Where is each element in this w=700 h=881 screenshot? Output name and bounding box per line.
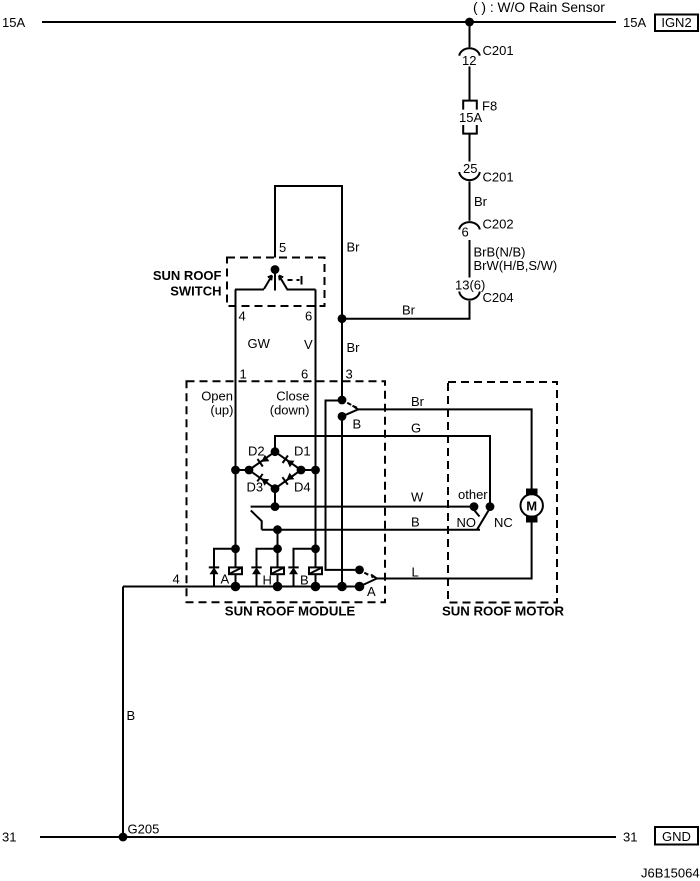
wire B line [262,529,480,531]
relay contact B: common dot from pin3 [338,396,347,405]
svg-text:31: 31 [2,830,16,845]
svg-text:D4: D4 [294,480,311,495]
wire trunk segment 5 [469,240,471,278]
wire G from bridge top to motor NC [275,436,490,507]
motor M [526,489,538,496]
diode of pair H [251,566,261,568]
bridge right stub [301,469,316,471]
wire bridge bottom to W line [274,489,276,507]
bridge node dots [271,447,280,456]
svg-text:5: 5 [279,240,286,255]
wire trunk segment 4 Br [469,181,471,220]
relay contact B dashed throw [347,403,357,408]
svg-text:SUN ROOF: SUN ROOF [153,268,222,283]
svg-text:L: L [412,565,419,580]
wire middle vertical to coil H [277,530,279,568]
ground junction G205 [119,833,128,842]
svg-text:C204: C204 [483,290,514,305]
relay contact B: NC dot [338,412,347,421]
wire W line [251,506,474,508]
wire trunk segment 3 [469,134,471,162]
wire L to motor [377,523,532,579]
svg-text:SUN ROOF MOTOR: SUN ROOF MOTOR [442,604,565,619]
relay pair H: top branch [257,549,278,568]
svg-text:3: 3 [346,367,353,382]
svg-text:12: 12 [462,53,476,68]
diode D3 [261,479,269,486]
svg-text:other: other [458,487,488,502]
wire switch feed: top bar and verticals [275,186,342,319]
diode of pair A [209,566,219,568]
relay pair B: top branch [294,549,316,568]
svg-text:G205: G205 [128,822,160,837]
wire pin3 down to ground bus [341,416,343,586]
relay contact A upper dot [355,566,364,575]
svg-text:V: V [304,337,313,352]
svg-text:4: 4 [239,309,246,324]
svg-text:(down): (down) [270,403,310,418]
svg-text:B: B [127,708,136,723]
svg-text:SUN ROOF MODULE: SUN ROOF MODULE [225,604,356,619]
switch left throw blade [264,276,272,290]
wire Br trunk to module pin 3 [341,319,343,400]
limit switch NO stub [475,511,480,517]
wire B-contact return (left jog, down, to A-contact upper) [326,401,360,570]
wire trunk segment 2 [469,67,471,101]
switch right contact rail [287,289,316,291]
svg-text:13(6): 13(6) [455,277,485,292]
svg-text:( ) : W/O Rain Sensor: ( ) : W/O Rain Sensor [473,0,605,15]
diode D1 [287,460,295,467]
junction dot on Br trunk [338,314,347,323]
svg-text:15A: 15A [459,110,482,125]
switch right throw blade [279,276,287,290]
coil A [235,567,237,586]
svg-text:SWITCH: SWITCH [170,284,221,299]
svg-text:Open: Open [201,389,233,404]
svg-text:31: 31 [623,830,637,845]
svg-text:Br: Br [402,303,416,318]
wire Br to motor [358,409,532,488]
wire bottom ground line [40,836,616,838]
svg-text:J6B15064: J6B15064 [641,866,700,881]
switch common stub [274,270,276,291]
connector C201 pin 12 (dome) [459,48,480,55]
limit switch: NC dot [486,502,495,511]
svg-text:NO: NO [457,515,477,530]
box GND [655,827,698,845]
svg-text:C202: C202 [483,217,514,232]
svg-text:GW: GW [248,336,271,351]
diode D2 [262,455,270,462]
relay contact A blade [360,575,377,587]
svg-text:C201: C201 [483,43,514,58]
svg-text:15A: 15A [2,15,25,30]
svg-text:6: 6 [462,225,469,240]
wire from C204 down and left to junction [342,301,470,319]
svg-text:M: M [526,499,537,514]
junction on top line [465,18,474,27]
svg-text:Br: Br [347,340,361,355]
diode bridge diamond [249,452,301,489]
svg-text:Br: Br [411,394,425,409]
wire ground bus [123,586,360,588]
svg-text:B: B [353,417,362,432]
box SUN ROOF MOTOR (dashed) [448,382,557,603]
svg-text:15A: 15A [623,15,646,30]
svg-text:B: B [300,573,309,588]
diode of pair B [288,566,298,568]
svg-text:Br: Br [474,194,488,209]
relay contact A dashed throw [364,573,373,578]
svg-text:6: 6 [301,367,308,382]
switch common junction [271,265,280,274]
svg-text:(up): (up) [210,403,233,418]
svg-text:D2: D2 [248,444,265,459]
switch left contact rail [235,289,264,291]
wire GW [235,290,237,568]
svg-text:F8: F8 [482,99,497,114]
svg-text:C201: C201 [483,170,514,185]
svg-text:A: A [367,584,376,599]
svg-text:25: 25 [463,161,477,176]
bus junction dots [231,582,241,592]
relay contact B blade [342,406,358,417]
wire ground drop left [122,587,124,838]
wire trunk segment 1 [469,22,471,47]
relay pair A: top branch [214,549,236,568]
svg-text:G: G [411,421,421,436]
switch linkage dashed [288,279,300,281]
svg-text:BrW(H/B,S/W): BrW(H/B,S/W) [474,258,558,273]
connector C202 pin 6 (dome) [459,222,480,229]
wire V [315,290,317,568]
svg-text:D3: D3 [247,480,264,495]
svg-text:B: B [411,515,420,530]
svg-text:IGN2: IGN2 [661,15,691,30]
box SUN ROOF SWITCH (dashed) [227,258,325,307]
svg-text:4: 4 [173,572,180,587]
svg-text:GND: GND [662,829,691,844]
svg-text:D1: D1 [294,444,311,459]
bridge left stub [236,469,250,471]
coil B [315,567,317,586]
box SUN ROOF MODULE (dashed) [187,381,386,602]
svg-text:1: 1 [240,367,247,382]
svg-text:W: W [411,490,424,505]
diode D4 [286,473,294,480]
coil H [277,567,279,586]
svg-text:NC: NC [494,515,513,530]
svg-text:6: 6 [305,309,312,324]
fuse F8 15A [463,101,477,110]
svg-text:Br: Br [347,240,361,255]
limit switch: other dot [470,502,479,511]
wire top supply line [42,21,616,23]
box IGN2 [655,15,698,32]
svg-text:Close: Close [276,389,309,404]
limit switch blade from B line [477,508,490,530]
module internal switch blade W-B [251,511,262,530]
